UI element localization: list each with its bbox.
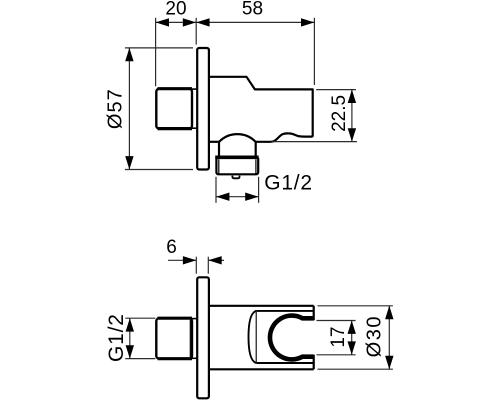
neck top line xyxy=(192,318,198,320)
boss thick top edge xyxy=(158,317,193,320)
dim 20/58 extension line middle xyxy=(195,18,197,45)
body bottom near plate xyxy=(209,141,220,143)
boss thick bottom edge xyxy=(158,127,193,130)
thread boss (bottom view) xyxy=(156,318,192,359)
nut xyxy=(216,157,258,174)
dim D57 extension top xyxy=(125,47,193,49)
body outline bottom edge xyxy=(209,368,314,370)
svg-text:6: 6 xyxy=(166,237,177,258)
svg-text:17: 17 xyxy=(328,327,349,348)
dim line G1/2 top view xyxy=(216,196,259,198)
arrow 17 top xyxy=(348,321,356,334)
dim D57 extension bottom xyxy=(125,169,193,171)
outlet left wall xyxy=(218,142,220,156)
dim 17 extension bottom xyxy=(317,354,356,356)
dim line 17 xyxy=(351,321,353,355)
arrow D57 top xyxy=(125,48,133,61)
wall plate (top view) xyxy=(197,48,209,170)
dim 6 extension left xyxy=(195,257,197,274)
dim line G1/2 bottom view xyxy=(129,318,131,358)
dim G1/2 (bottom view) extension bottom xyxy=(125,358,155,360)
holder outline bottom xyxy=(256,362,313,364)
nut chamfer left xyxy=(218,159,220,173)
arrow D30 top xyxy=(385,306,393,319)
dim 58 extension line right xyxy=(313,18,315,85)
dim 6 line right tail xyxy=(208,259,224,261)
neck bottom line xyxy=(192,127,198,129)
arrow G1/2 right xyxy=(245,193,258,201)
boss thick top edge xyxy=(158,87,193,90)
dim 22.5 extension top xyxy=(316,89,356,91)
arrow G1/2 top xyxy=(126,318,134,331)
dim 6 line left tail xyxy=(168,259,196,261)
arrow 22.5 top xyxy=(348,90,356,103)
body top profile xyxy=(209,77,313,137)
wall plate (bottom view) xyxy=(197,277,209,398)
svg-text:G1/2: G1/2 xyxy=(105,313,128,362)
arrow 20 right xyxy=(183,18,196,26)
outlet right wall xyxy=(255,142,257,156)
holder chamfer line xyxy=(255,312,257,362)
arrow D57 bottom xyxy=(125,156,133,169)
svg-text:58: 58 xyxy=(242,0,263,20)
svg-text:Ø30: Ø30 xyxy=(363,315,385,357)
dim G1/2 (top view) extension left xyxy=(215,177,217,203)
dim G1/2 (bottom view) extension top xyxy=(125,317,155,319)
boss thick bottom edge xyxy=(158,357,193,360)
nut top black band xyxy=(215,155,258,159)
arrow 6 right xyxy=(208,256,221,264)
dim D30 extension top xyxy=(318,305,393,307)
svg-text:G1/2: G1/2 xyxy=(264,171,313,194)
nipple below nut xyxy=(232,176,239,179)
dim 17 extension top xyxy=(317,320,356,322)
body right edge upper segment xyxy=(313,306,315,321)
neck bottom line xyxy=(192,357,198,359)
svg-text:20: 20 xyxy=(165,0,186,20)
arrow G1/2 left xyxy=(216,193,229,201)
arrow 58 left xyxy=(196,18,209,26)
neck top line xyxy=(192,88,198,90)
body outline (bottom view) top edge xyxy=(209,305,314,307)
dim 22.5 extension bottom xyxy=(272,141,358,143)
holder C-ring xyxy=(270,316,314,360)
holder left bulge xyxy=(249,311,257,363)
dim 6 extension right xyxy=(207,257,209,274)
svg-text:Ø57: Ø57 xyxy=(104,88,126,129)
arrow 58 right xyxy=(301,18,314,26)
body right edge lower segment xyxy=(313,355,315,370)
arrow D30 bottom xyxy=(385,356,393,369)
dim line D30 xyxy=(388,306,390,369)
holder outline top xyxy=(256,310,313,312)
arrow G1/2 bottom xyxy=(126,345,134,358)
nut chamfer right xyxy=(255,159,257,173)
arrow 17 bottom xyxy=(348,341,356,354)
arrow 20 left xyxy=(156,18,169,26)
dim G1/2 (top view) extension right xyxy=(258,177,260,203)
thread boss (top view) xyxy=(156,89,192,129)
arrow 6 left xyxy=(183,256,196,264)
boss chamfer line xyxy=(189,320,191,357)
dim line 22.5 xyxy=(351,90,353,142)
outlet dome xyxy=(219,134,256,142)
body bottom wave (holder profile) xyxy=(256,133,313,141)
dim D30 extension bottom xyxy=(318,368,393,370)
dim 20 extension line left xyxy=(155,18,157,86)
svg-text:22.5: 22.5 xyxy=(329,95,350,132)
arrow 22.5 bottom xyxy=(348,128,356,141)
dim line D57 xyxy=(128,48,130,170)
dim line 20+58 xyxy=(156,21,315,23)
